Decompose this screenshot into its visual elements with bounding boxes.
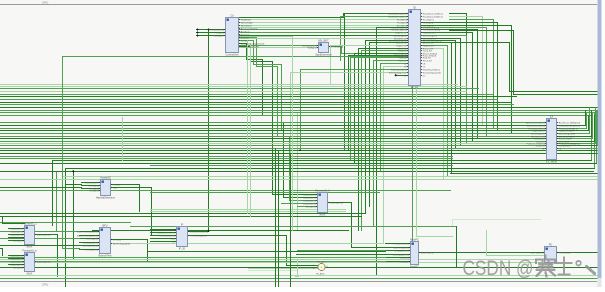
wire W12 routed net (238,40)-(292,226): [239, 41, 293, 227]
wire W18 horizontal segment y=48 x=238..318: [239, 47, 319, 49]
svg-text:Branch_EX: Branch_EX: [534, 138, 545, 140]
wire W29 vertical segment x=380 y=64..172: [380, 64, 382, 172]
wire W154 horizontal segment y=228 x=8..24: [9, 228, 25, 230]
svg-text:clk: clk: [404, 63, 406, 65]
wire W87 horizontal segment y=136 x=0..546: [1, 136, 547, 138]
wire W34 horizontal segment y=50 x=362..408: [362, 50, 409, 52]
svg-text:Rs_EX[4:0]: Rs_EX[4:0]: [423, 19, 434, 21]
wire W136 horizontal segment y=204 x=282..318: [282, 203, 318, 205]
wire W166 horizontal segment y=232 x=80..100: [80, 231, 100, 233]
svg-text:RegDstD: RegDstD: [241, 33, 250, 36]
wire W74 horizontal segment y=96 x=0..516: [1, 96, 517, 98]
svg-text:MemtoReg_ID: MemtoReg_ID: [393, 34, 406, 37]
svg-text:SchedulingsignalsD: SchedulingsignalsD: [241, 46, 260, 48]
svg-text:PCPlus4_ID[31:0]: PCPlus4_ID[31:0]: [390, 29, 406, 31]
wire W183 routed net (188,236)-(296,266): [188, 236, 297, 266]
junction J4 at (300,150): [299, 149, 301, 151]
wire W131 routed net (110,188)-(152,236): [111, 188, 152, 236]
block ID_EX pipeline register: [388, 5, 443, 89]
svg-text:DataIn3[31:0]: DataIn3[31:0]: [10, 263, 22, 266]
wire W13 routed net (238,38)-(318,200): [239, 38, 318, 201]
wire W5 horizontal segment y=20 x=238..408: [239, 19, 409, 21]
wire W150 horizontal segment y=248 x=0..2: [1, 248, 3, 250]
wire W42 vertical segment x=340 y=16..60: [340, 17, 342, 61]
wire W144 routed net (328,202)-(386,248): [328, 203, 386, 248]
svg-text:MemtoReg_EX: MemtoReg_EX: [423, 34, 438, 37]
wire W48 horizontal segment y=70 x=300..408: [301, 69, 409, 71]
wire W207 vertical segment x=486 y=230..256: [486, 231, 488, 256]
svg-text:Instruction[31:26]: Instruction[31:26]: [208, 28, 224, 31]
wire W49 vertical segment x=300 y=70..150: [300, 70, 302, 151]
svg-text:PC_Write: PC_Write: [400, 260, 409, 263]
svg-text:RegDst_ID: RegDst_ID: [397, 44, 407, 47]
wire W102 routed net (556,136)-(592,110): [557, 111, 592, 137]
wire W146 routed net (452,220)-(374,226): [374, 220, 453, 227]
svg-text:DataOut[31:0]: DataOut[31:0]: [37, 260, 50, 263]
wire W43 horizontal segment y=38 x=238..408: [239, 38, 409, 40]
junction J2 at (197,36): [196, 34, 199, 37]
wire W116 horizontal segment y=168 x=66..594: [66, 168, 595, 170]
wire W180 horizontal segment y=238 x=150..176: [151, 238, 177, 240]
wire W133 horizontal segment y=188 x=0..82: [1, 187, 82, 189]
svg-text:DataOut[31:0]: DataOut[31:0]: [37, 233, 50, 236]
wire W191 horizontal segment y=254 x=296..386: [297, 254, 386, 256]
wire W134 horizontal segment y=190 x=0..450: [1, 190, 451, 192]
svg-text:WriteReg_EX[4:0]: WriteReg_EX[4:0]: [423, 68, 440, 71]
wire W151 horizontal segment y=216 x=0..2: [1, 216, 3, 218]
wire W190 horizontal segment y=262 x=386..410: [386, 261, 411, 263]
block PC program counter: [530, 242, 570, 266]
wire W178 horizontal segment y=232 x=150..176: [151, 232, 177, 234]
wire W108 horizontal segment y=150 x=0..606: [1, 150, 605, 152]
svg-text:+: +: [321, 265, 323, 269]
wire W212 horizontal segment y=236 x=416..452: [417, 236, 453, 238]
wire W197 horizontal segment y=260 x=0..540: [1, 259, 541, 261]
svg-text:ALUResult_EX[31:0]: ALUResult_EX[31:0]: [526, 121, 545, 124]
svg-text:Stall: Stall: [170, 237, 174, 240]
svg-text:DataIn3[31:0]: DataIn3[31:0]: [303, 202, 315, 205]
wire W145 horizontal segment y=220 x=452..540: [453, 219, 541, 221]
wire W177 horizontal segment y=230 x=150..176: [151, 229, 177, 231]
wire W161 horizontal segment y=262 x=8..24: [9, 261, 25, 263]
svg-text:NextPC: NextPC: [410, 265, 419, 269]
wire W186 horizontal segment y=248 x=386..410: [386, 247, 411, 249]
wire W93 routed net (598,108)-(450,174): [451, 108, 599, 174]
block BranchTest: [77, 223, 130, 257]
wire W21 vertical segment x=348 y=56..150: [348, 56, 350, 151]
wire W114 vertical segment x=56 y=172..230: [56, 172, 58, 231]
wire W156 horizontal segment y=234 x=8..24: [9, 234, 25, 236]
svg-text:BranchTest: BranchTest: [99, 254, 112, 258]
wire W24 vertical segment x=362 y=50..230: [361, 51, 363, 231]
wire W96 vertical segment x=594 y=112..168: [594, 113, 596, 169]
block EX_MEM pipeline register: [526, 114, 581, 163]
wire W201 vertical segment x=298 y=260..276: [297, 260, 299, 277]
wire W132 horizontal segment y=184 x=66..82: [66, 184, 82, 186]
wire W123 horizontal segment y=248 x=62..80: [63, 248, 80, 250]
junction J0 at (197,30): [196, 28, 199, 31]
wire W7 horizontal segment y=26 x=238..408: [239, 25, 409, 27]
svg-text:ALUSrc_ID: ALUSrc_ID: [396, 41, 407, 44]
wire W92 horizontal segment y=148 x=0..546: [1, 148, 547, 150]
svg-text:Rt_ID[4:0]: Rt_ID[4:0]: [89, 189, 98, 192]
wire W185 horizontal segment y=244 x=386..410: [386, 243, 411, 245]
svg-text:MX_BUT: MX_BUT: [318, 38, 329, 42]
svg-text:PS_AND: PS_AND: [316, 273, 325, 276]
wire W122 vertical segment x=62 y=56..248: [62, 57, 64, 249]
svg-text:ClearSignal: ClearSignal: [213, 35, 224, 37]
wire W193 horizontal segment y=258 x=0..386: [1, 257, 386, 259]
svg-text:DataIn2[31:0]: DataIn2[31:0]: [303, 199, 315, 202]
svg-text:Stall_ID: Stall_ID: [399, 56, 407, 59]
svg-text:CSDN @: CSDN @: [463, 257, 534, 280]
wire W208 horizontal segment y=256 x=486..544: [487, 255, 545, 257]
svg-text:NewPC_ID[31:0]: NewPC_ID[31:0]: [393, 247, 408, 249]
svg-text:PCPlus4_IF[31:0]: PCPlus4_IF[31:0]: [159, 235, 175, 237]
wire W198 horizontal segment y=262 x=0..540: [1, 262, 541, 264]
block NextPC: [393, 237, 434, 268]
wire W72 horizontal segment y=92 x=0..466: [1, 91, 467, 93]
wire W103 routed net (556,138)-(592,112): [557, 113, 593, 139]
wire W77 horizontal segment y=104 x=0..514: [1, 104, 514, 106]
svg-text:MUX: MUX: [27, 245, 33, 249]
wire W80 horizontal segment y=112 x=0..594: [1, 112, 595, 114]
wire W41 horizontal segment y=16 x=340..408: [341, 16, 409, 18]
wire W68 routed net (450,42)-(598,92): [450, 43, 598, 92]
svg-text:RegWrite_ID: RegWrite_ID: [395, 31, 407, 34]
svg-text:clk: clk: [172, 241, 174, 243]
svg-text:en: en: [404, 75, 406, 77]
svg-text:MemtoReg_MEM: MemtoReg_MEM: [559, 132, 575, 135]
wire W158 horizontal segment y=240 x=8..24: [9, 240, 25, 242]
wire W213 vertical segment x=122 y=118..160: [122, 118, 124, 161]
wire W205 horizontal segment y=268 x=248..318: [249, 268, 319, 270]
wire W168 horizontal segment y=238 x=80..100: [80, 238, 100, 240]
wire W200 horizontal segment y=270 x=248..296: [249, 270, 297, 272]
wire W160 horizontal segment y=258 x=8..24: [9, 258, 25, 260]
wire W45 vertical segment x=330 y=46..84: [330, 46, 332, 85]
wire W169 horizontal segment y=242 x=80..100: [80, 242, 100, 244]
svg-text:Rt_EX[4:0]: Rt_EX[4:0]: [89, 184, 99, 187]
wire W86 horizontal segment y=134 x=0..546: [1, 133, 547, 135]
wire W175 routed net (110,240)-(148,262): [111, 240, 148, 263]
wire W30 vertical segment x=384 y=66..244: [383, 67, 385, 244]
svg-text:BranchTestData2[31:0]: BranchTestData2[31:0]: [77, 234, 98, 237]
wire W174 horizontal segment y=246 x=0..80: [1, 245, 80, 247]
block IF_ID pipeline register: [157, 222, 208, 250]
wire W109 horizontal segment y=154 x=0..606: [1, 153, 605, 155]
svg-text:DataIn1[31:0]: DataIn1[31:0]: [303, 196, 315, 199]
wire W0 horizontal segment y=30 x=196..226: [197, 29, 226, 31]
wire W195 horizontal segment y=252 x=420..544: [420, 252, 545, 254]
svg-text:ReadData1_ID[31:0]: ReadData1_ID[31:0]: [388, 12, 407, 15]
svg-text:Select[1:0]: Select[1:0]: [13, 266, 23, 269]
wire W172 horizontal segment y=232 x=0..80: [1, 231, 80, 233]
wire W19 routed net (328,46)-(408,54): [328, 47, 409, 54]
block ForwardMux A: [303, 188, 343, 216]
wire W125 routed net (62,56)-(412,242): [63, 57, 413, 242]
svg-text:CPU: CPU: [42, 283, 48, 287]
wire W57 routed net (422,26)-(512,134): [422, 26, 512, 134]
wire W192 horizontal segment y=250 x=298..386: [298, 250, 386, 252]
svg-text:ALUResult_MEM[31:0]: ALUResult_MEM[31:0]: [559, 121, 581, 124]
wire W202 horizontal segment y=260 x=296..298: [296, 259, 299, 261]
wire W126 horizontal segment y=182 x=82..100: [82, 182, 101, 184]
wire W79 horizontal segment y=110 x=0..596: [1, 110, 597, 112]
wire W2 horizontal segment y=36 x=196..226: [197, 35, 226, 37]
svg-text:Instruction_IF[31:0]: Instruction_IF[31:0]: [157, 231, 175, 234]
wire W55 routed net (450,20)-(494,128): [450, 20, 494, 129]
svg-text:PCPlus4_IF[31:0]: PCPlus4_IF[31:0]: [393, 243, 409, 245]
svg-text:ReadData2_ID[31:0]: ReadData2_ID[31:0]: [388, 15, 407, 18]
svg-text:DataIn2[31:0]: DataIn2[31:0]: [10, 233, 22, 236]
svg-text:PCPlus4_ID[31:0]: PCPlus4_ID[31:0]: [190, 235, 207, 237]
wire W83 horizontal segment y=126 x=0..546: [1, 125, 547, 127]
wire W159 horizontal segment y=256 x=8..24: [9, 255, 25, 257]
svg-text:ALUSrc_EX: ALUSrc_EX: [423, 41, 435, 44]
svg-text:BranchTestData1[31:0]: BranchTestData1[31:0]: [77, 230, 98, 233]
wire W78 horizontal segment y=108 x=0..598: [1, 107, 599, 109]
wire W143 vertical segment x=250 y=44..216: [250, 44, 252, 217]
svg-text:WriteReg_ID[4:0]: WriteReg_ID[4:0]: [391, 68, 407, 71]
wire W105 routed net (556,144)-(596,108): [557, 108, 596, 144]
wire W199 horizontal segment y=268 x=0..598: [1, 267, 598, 269]
svg-text:CU: CU: [230, 13, 234, 17]
wire W35 horizontal segment y=40 x=366..408: [366, 40, 409, 42]
svg-text:Rt_ID[4:0]: Rt_ID[4:0]: [397, 21, 406, 24]
wire W215 vertical segment x=292 y=36..230: [292, 37, 294, 231]
svg-text:Rs_ID[4:0]: Rs_ID[4:0]: [397, 19, 407, 21]
wire W31 horizontal segment y=56 x=348..408: [349, 55, 409, 57]
wire W129 horizontal segment y=190 x=82..100: [82, 190, 101, 192]
wire W217 vertical segment x=276 y=148..288: [275, 149, 277, 288]
svg-text:Jump_EX: Jump_EX: [423, 50, 433, 52]
wire W100 routed net (556,130)-(588,116): [557, 116, 589, 131]
svg-text:Select[1:0]: Select[1:0]: [306, 205, 316, 208]
svg-text:Flush_ID: Flush_ID: [398, 60, 407, 62]
svg-text:Instr_Index[25:0]: Instr_Index[25:0]: [82, 244, 97, 247]
module boundary CPU bottom edge: [0, 281, 597, 283]
svg-text:WriteData_MEM[31:0]: WriteData_MEM[31:0]: [559, 124, 580, 127]
svg-text:ReadData2_EX[31:0]: ReadData2_EX[31:0]: [423, 15, 443, 18]
wire W179 horizontal segment y=236 x=150..176: [151, 235, 177, 237]
wire W75 horizontal segment y=100 x=0..498: [1, 99, 498, 101]
wire W142 vertical segment x=248 y=40..214: [247, 41, 249, 214]
wire W165 horizontal segment y=262 x=34..58: [35, 261, 58, 263]
wire W140 horizontal segment y=214 x=0..366: [1, 213, 366, 215]
wire W82 horizontal segment y=122 x=0..546: [1, 122, 547, 124]
svg-text:ExtSignalConfigureD[1:0]: ExtSignalConfigureD[1:0]: [241, 42, 265, 45]
wire W124 horizontal segment y=180 x=0..606: [1, 179, 605, 181]
svg-text:NewPCSignal[4:0]: NewPCSignal[4:0]: [113, 243, 130, 245]
wire W164 routed net (34,234)-(58,276): [35, 235, 58, 277]
wire W170 horizontal segment y=246 x=80..100: [80, 245, 100, 247]
wire W67 routed net (450,30)-(598,94): [450, 31, 598, 95]
svg-text:SignExtension: SignExtension: [315, 53, 332, 57]
svg-text:ForwardU_b: ForwardU_b: [22, 248, 37, 252]
wire W206 routed net (326,268)-(456,226): [326, 227, 457, 268]
svg-text:RegWrite_EX: RegWrite_EX: [423, 31, 436, 34]
wire W110 horizontal segment y=156 x=0..452: [1, 156, 453, 158]
wire W153 horizontal segment y=230 x=92..348: [93, 230, 349, 232]
wire W54 routed net (450,16)-(482,126): [450, 17, 483, 126]
junction J3 at (209,30): [207, 28, 209, 30]
wire W40 horizontal segment y=66 x=384..408: [384, 66, 409, 68]
scrollbar: [598, 0, 602, 278]
wire W139 horizontal segment y=212 x=150..346: [151, 211, 346, 213]
wire W4 routed net (238,18)-(408,14): [239, 14, 409, 18]
wire W118 horizontal segment y=172 x=0..594: [1, 171, 594, 173]
svg-text:Branch_MEM: Branch_MEM: [559, 137, 572, 140]
svg-text:MUX: MUX: [320, 213, 326, 217]
wire W56 routed net (422,22)-(498,130): [422, 23, 498, 131]
wire W71 horizontal segment y=88 x=0..478: [1, 88, 479, 90]
wire W181 horizontal segment y=242 x=150..176: [151, 241, 177, 243]
wire W70 horizontal segment y=86 x=0..466: [1, 86, 467, 88]
svg-text:Select[1:0]: Select[1:0]: [13, 239, 23, 242]
svg-text:HazardD: HazardD: [100, 175, 110, 179]
svg-text:PS_OR_i: PS_OR_i: [317, 262, 326, 264]
svg-text:RegWrite_EX: RegWrite_EX: [532, 129, 545, 132]
svg-text:BranchAddr[31:0]: BranchAddr[31:0]: [393, 253, 409, 256]
wire W50 horizontal segment y=72 x=290..408: [291, 72, 409, 74]
wire W52 horizontal segment y=76 x=396..408: [396, 75, 409, 77]
svg-text:PC_IF[31:0]: PC_IF[31:0]: [559, 252, 571, 254]
svg-text:BranchD: BranchD: [241, 36, 250, 39]
wire W3 vertical segment x=208 y=30..232: [208, 30, 210, 232]
wire W187 horizontal segment y=250 x=386..410: [386, 250, 411, 252]
block ForwardMux 2: [10, 248, 50, 275]
wire W135 horizontal segment y=192 x=150..380: [151, 192, 380, 194]
svg-text:Jump_ID: Jump_ID: [398, 50, 407, 52]
svg-text:NextPC: NextPC: [410, 237, 419, 241]
svg-text:PCWrite: PCWrite: [113, 183, 122, 186]
svg-text:ID: ID: [413, 5, 416, 9]
wire W60 routed net (422,32)-(472,142): [422, 33, 473, 142]
wire W73 horizontal segment y=94 x=0..494: [1, 94, 494, 96]
wire W6 horizontal segment y=22 x=238..408: [239, 22, 409, 24]
wire W157 horizontal segment y=238 x=8..24: [9, 237, 25, 239]
wire W189 horizontal segment y=258 x=386..410: [386, 257, 411, 259]
wire W203 horizontal segment y=276 x=296..298: [296, 276, 299, 278]
wire W147 horizontal segment y=222 x=0..130: [1, 222, 131, 224]
wire W173 horizontal segment y=238 x=0..80: [1, 238, 80, 240]
wire W89 horizontal segment y=142 x=0..546: [1, 141, 547, 143]
svg-text:Flush_EX: Flush_EX: [423, 60, 433, 62]
wire W152 horizontal segment y=226 x=130..456: [131, 226, 457, 228]
wire W163 horizontal segment y=268 x=8..24: [9, 267, 25, 269]
wire W210 horizontal segment y=278 x=0..606: [1, 278, 605, 280]
module boundary CPU top edge: [0, 4, 597, 6]
wire W88 horizontal segment y=138 x=0..546: [1, 138, 547, 140]
wire W182 horizontal segment y=232 x=188..208: [188, 231, 209, 233]
svg-text:IF_Flush: IF_Flush: [167, 229, 175, 231]
wire W64 routed net (422,42)-(452,174): [422, 43, 452, 174]
wire W176 horizontal segment y=244 x=110..384: [111, 243, 384, 245]
wire W115 horizontal segment y=164 x=0..596: [1, 163, 597, 165]
svg-text:MemtoRegD: MemtoRegD: [241, 21, 253, 24]
wire W59 routed net (422,30)-(478,138): [422, 30, 478, 139]
wire W138 horizontal segment y=210 x=150..346: [151, 209, 346, 211]
wire W184 horizontal segment y=252 x=148..386: [148, 251, 386, 253]
wire W127 horizontal segment y=186 x=82..100: [82, 185, 101, 187]
wire W47 vertical segment x=350 y=58..160: [350, 58, 352, 161]
wire W26 vertical segment x=370 y=42..206: [369, 43, 371, 207]
wire W121 horizontal segment y=176 x=62..606: [63, 176, 605, 178]
svg-text:WriteData_EX[31:0]: WriteData_EX[31:0]: [527, 124, 545, 127]
svg-text:PC: PC: [549, 242, 553, 246]
wire W128 horizontal segment y=188 x=82..100: [82, 188, 101, 190]
wire W61 routed net (422,36)-(466,144): [422, 36, 467, 144]
wire W104 routed net (556,142)-(594,116): [557, 116, 595, 142]
wire W62 routed net (422,38)-(460,146): [422, 39, 461, 146]
svg-text:ForwardU_1: ForwardU_1: [22, 221, 37, 225]
wire W101 routed net (556,134)-(590,108): [557, 108, 590, 134]
watermark CSDN: [463, 256, 595, 281]
svg-text:ControlUnit: ControlUnit: [226, 53, 239, 57]
svg-text:RegWriteD: RegWriteD: [241, 18, 252, 21]
wire W14 horizontal segment y=32 x=238..408: [239, 32, 409, 34]
wire W148 routed net (2,216)-(24,224): [3, 217, 25, 224]
wire W214 vertical segment x=290 y=154..288: [290, 154, 292, 288]
wire W69 horizontal segment y=84 x=0..458: [1, 84, 458, 86]
svg-text:Jump_EX: Jump_EX: [536, 145, 545, 147]
wire W188 horizontal segment y=254 x=386..410: [386, 254, 411, 256]
OR gate IPS_OR: [318, 263, 325, 270]
wire W90 horizontal segment y=144 x=0..546: [1, 143, 547, 145]
wire W37 horizontal segment y=60 x=374..408: [374, 60, 409, 62]
wire W167 horizontal segment y=236 x=80..100: [80, 235, 100, 237]
wire W149 vertical segment x=2 y=248..256: [2, 249, 4, 256]
svg-text:SchedulingsignalsD: SchedulingsignalsD: [389, 72, 407, 74]
wire W111 horizontal segment y=158 x=0..452: [1, 158, 453, 160]
wire W10 routed net (238,44)-(318,194): [239, 44, 318, 195]
svg-text:MemWriteD: MemWriteD: [241, 24, 252, 27]
wire W119 vertical segment x=74 y=172..260: [73, 172, 75, 260]
svg-text:RegDst_EX: RegDst_EX: [423, 44, 434, 47]
wire W120 horizontal segment y=174 x=450..598: [451, 173, 599, 175]
wire W8 routed net (238,28)-(408,28): [239, 27, 409, 29]
svg-text:MemtoReg_EX: MemtoReg_EX: [531, 132, 545, 135]
wire W51 vertical segment x=290 y=72..154: [290, 73, 292, 154]
wire W97 vertical segment x=592 y=116..160: [591, 116, 593, 161]
svg-text:ExtSignal: ExtSignal: [308, 46, 317, 49]
svg-text:ImmExt[31:0]: ImmExt[31:0]: [331, 45, 344, 48]
svg-text:DataIn0[31:0]: DataIn0[31:0]: [303, 193, 315, 196]
wire W9 horizontal segment y=30 x=238..408: [239, 29, 409, 31]
wire W36 horizontal segment y=42 x=370..408: [370, 42, 409, 44]
svg-text:SchedulingsignalsD: SchedulingsignalsD: [423, 72, 442, 74]
wire W85 horizontal segment y=130 x=0..546: [1, 130, 547, 132]
svg-text:DataIn3[31:0]: DataIn3[31:0]: [10, 236, 22, 239]
svg-text:clk: clk: [542, 148, 544, 150]
svg-text:Instruction_ID[31:0]: Instruction_ID[31:0]: [190, 230, 208, 233]
wire W17 horizontal segment y=46 x=238..318: [239, 45, 319, 47]
wire W81 horizontal segment y=116 x=0..592: [1, 115, 592, 117]
svg-text:JumpSignal[1:0]: JumpSignal[1:0]: [83, 242, 98, 244]
wire W20 vertical segment x=344 y=14..150: [344, 14, 346, 151]
wire W171 horizontal segment y=250 x=80..100: [80, 249, 100, 251]
wire W44 horizontal segment y=46 x=330..408: [331, 45, 409, 47]
wire W98 routed net (556,126)-(586,110): [557, 111, 586, 126]
wire W106 routed net (556,146)-(598,110): [557, 111, 598, 146]
svg-text:NextPC[31:0]: NextPC[31:0]: [421, 251, 434, 254]
svg-text:DataOut[31:0]: DataOut[31:0]: [330, 201, 343, 204]
wire W84 horizontal segment y=128 x=0..546: [1, 128, 547, 130]
block ForwardMux 1: [10, 221, 50, 248]
svg-text:ALUSrcD: ALUSrcD: [241, 30, 250, 33]
block HazardDetection: [85, 175, 121, 199]
